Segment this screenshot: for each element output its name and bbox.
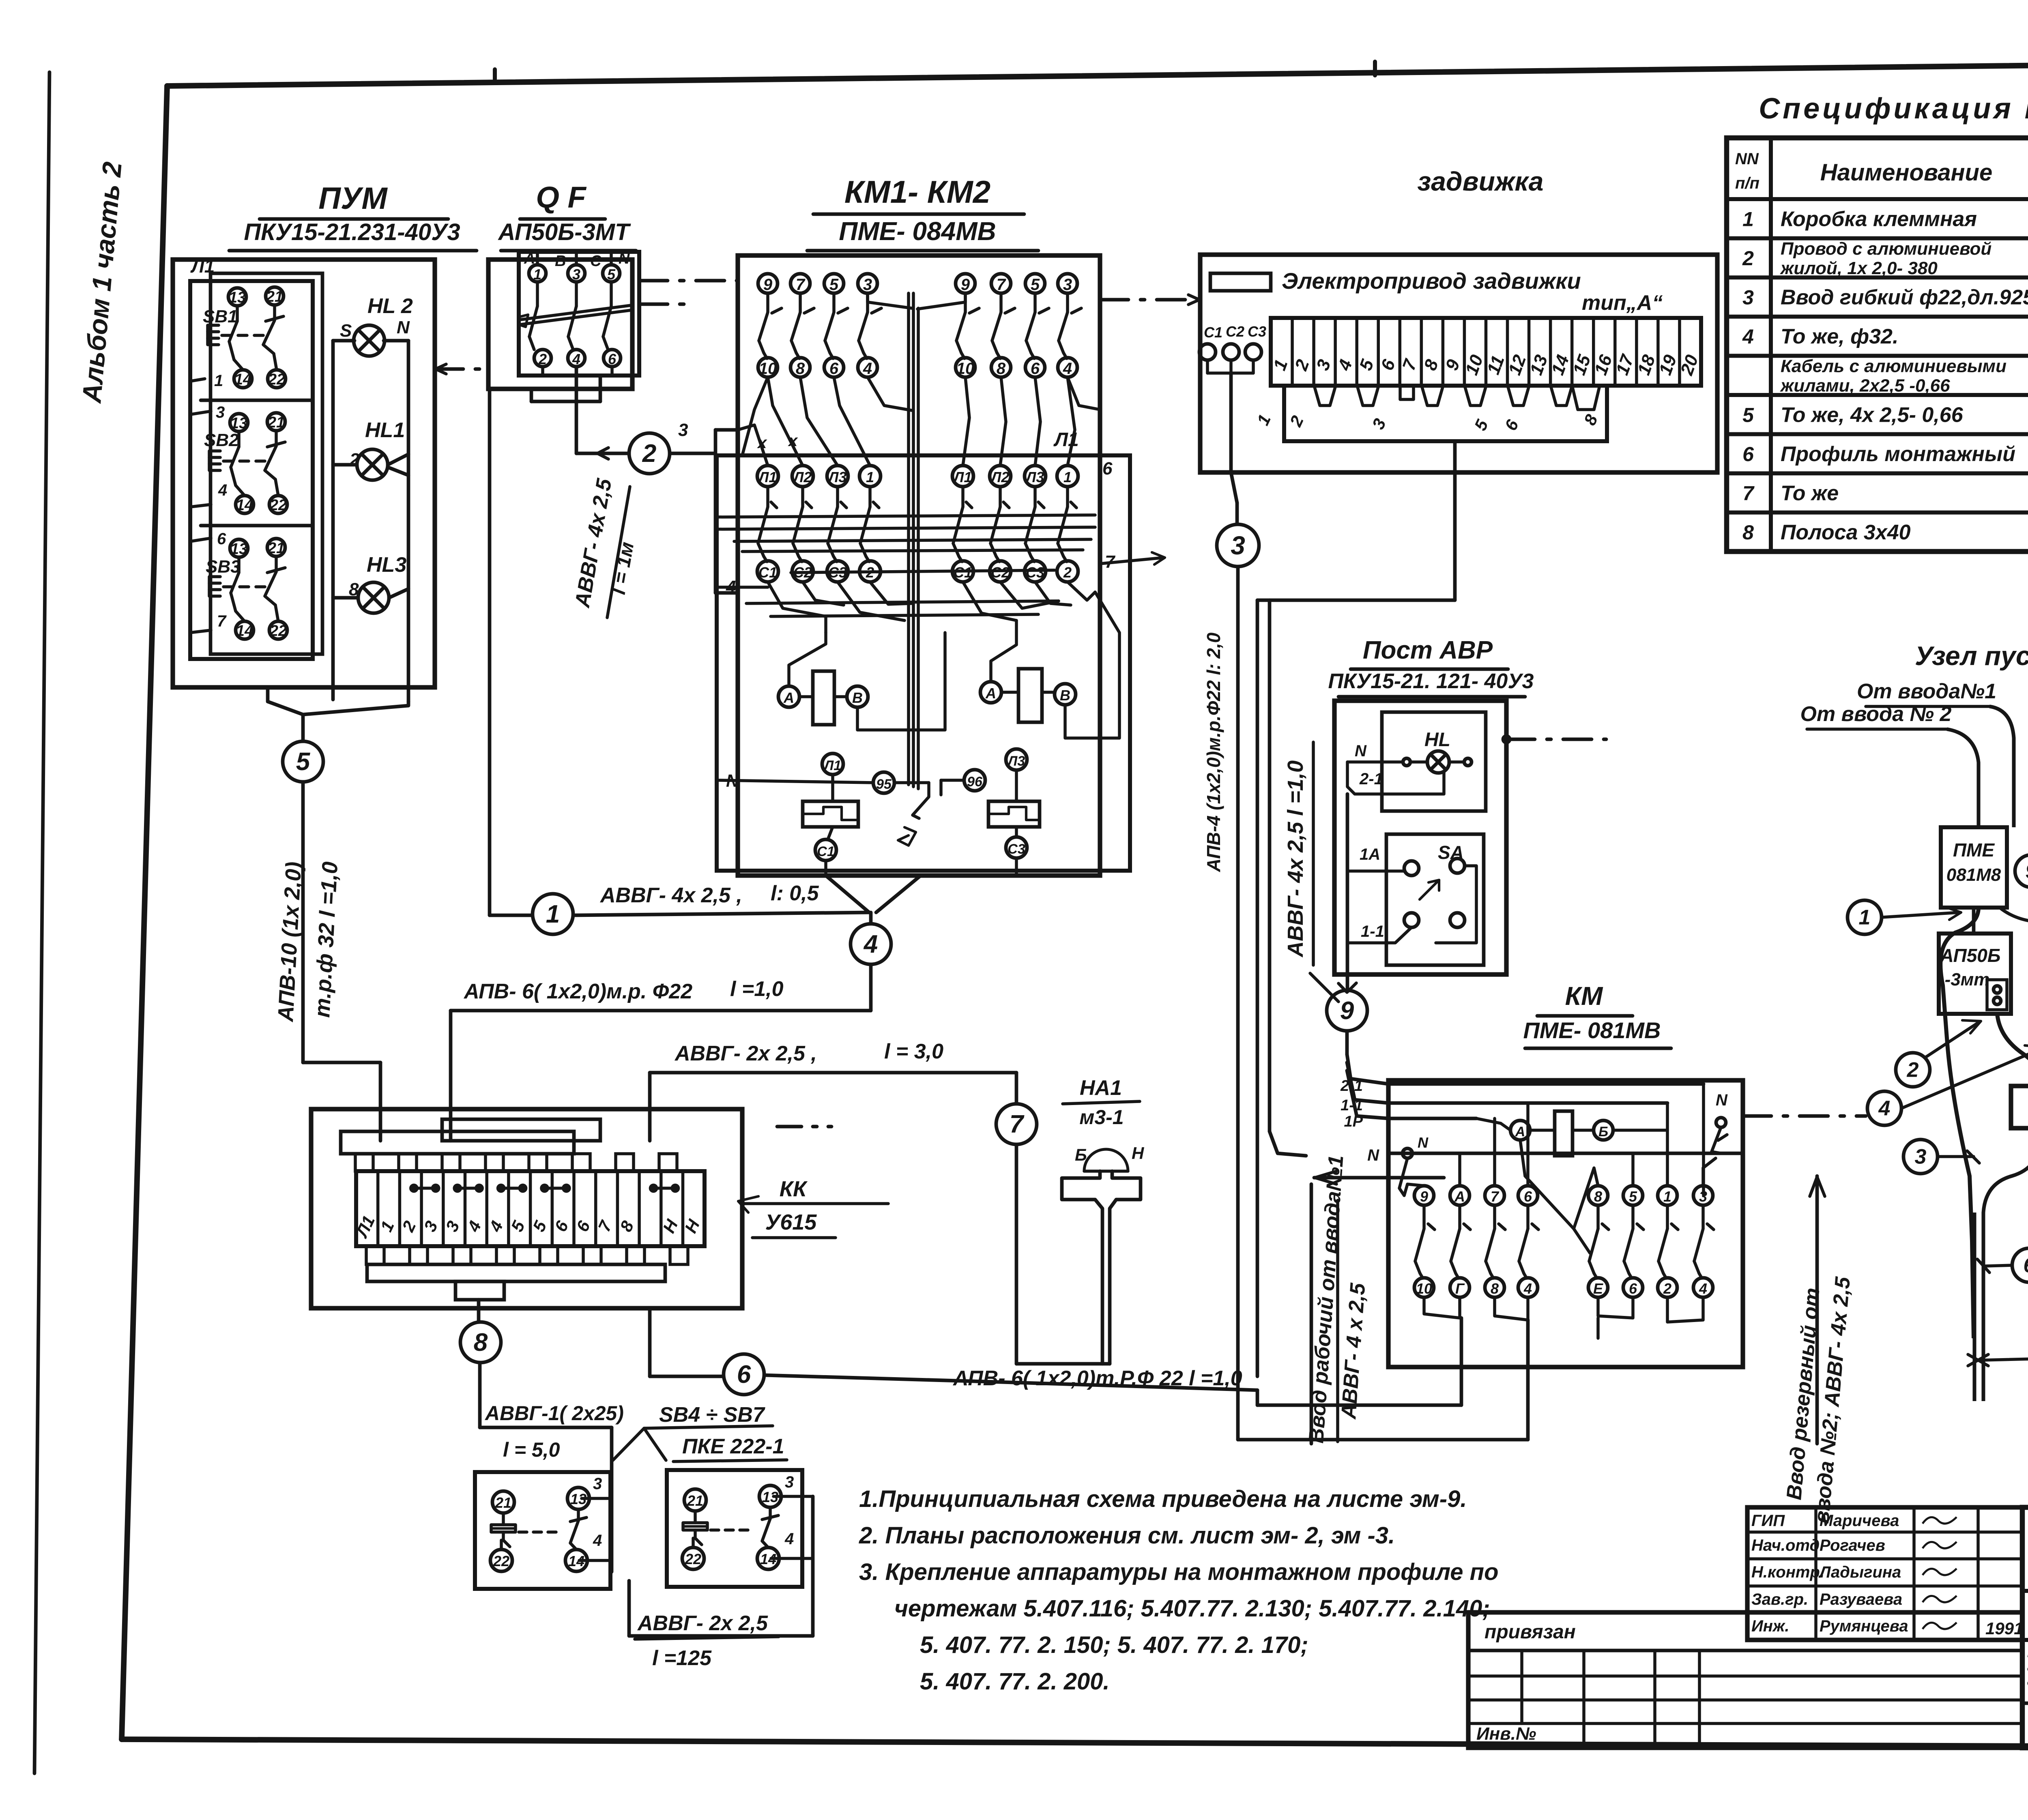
svg-text:АВВГ- 4х 2,5 l =1,0: АВВГ- 4х 2,5 l =1,0 xyxy=(1283,760,1308,958)
svg-text:3: 3 xyxy=(1699,1188,1707,1205)
svg-text:2: 2 xyxy=(1063,564,1072,581)
vertical album label xyxy=(76,161,127,405)
svg-text:С1: С1 xyxy=(758,564,777,581)
svg-text:6: 6 xyxy=(829,360,839,378)
svg-text:тип„А“: тип„А“ xyxy=(1582,291,1663,315)
svg-text:Л2: Л2 xyxy=(990,469,1010,485)
breaker QF title xyxy=(497,180,636,251)
svg-text:HL 2: HL 2 xyxy=(367,294,413,318)
svg-text:АВВГ-1( 2х25): АВВГ-1( 2х25) xyxy=(484,1402,624,1425)
svg-text:п/п: п/п xyxy=(1735,174,1759,192)
wire marker 1 xyxy=(533,894,573,934)
svg-text:4: 4 xyxy=(863,360,872,378)
wire QF left down to marker 1 xyxy=(490,389,533,915)
svg-text:3: 3 xyxy=(785,1473,794,1491)
svg-text:1Р: 1Р xyxy=(1344,1113,1363,1130)
post AVR outline xyxy=(1334,701,1506,974)
label k zadvizhke xyxy=(1968,1328,2028,1387)
svg-text:1-1: 1-1 xyxy=(1341,1097,1363,1114)
svg-text:В: В xyxy=(1060,687,1070,704)
cable label APV-4 rotated xyxy=(1203,632,1224,872)
svg-text:Пост АВР: Пост АВР xyxy=(1363,636,1493,664)
wire SB loop xyxy=(629,1496,813,1636)
KM1 main contacts xyxy=(757,432,881,582)
title block left grid xyxy=(1468,1612,2022,1748)
svg-text:1: 1 xyxy=(1663,1188,1671,1205)
KM bottom links xyxy=(1238,1297,1703,1440)
svg-text:ПКЕ 222-1: ПКЕ 222-1 xyxy=(682,1435,784,1458)
svg-text:АВВГ- 2х 2,5: АВВГ- 2х 2,5 xyxy=(637,1612,768,1635)
svg-text:8: 8 xyxy=(1594,1188,1602,1205)
svg-text:1: 1 xyxy=(1859,906,1871,929)
contactor KM1-KM2 outline xyxy=(738,255,1100,876)
box PME-081M8 xyxy=(1941,827,2007,908)
KM2 aux contacts xyxy=(956,274,1081,378)
svg-text:6: 6 xyxy=(217,530,226,548)
svg-text:ГИП: ГИП xyxy=(1751,1512,1785,1530)
callout 4 xyxy=(1867,1045,2028,1125)
svg-text:14: 14 xyxy=(234,371,251,388)
valve block title xyxy=(1418,166,1544,196)
wire C2 down to marker 3 xyxy=(1231,472,1237,524)
box AP50B-3MT xyxy=(1939,908,2011,1014)
svg-text:ПКУ15-21.231-40У3: ПКУ15-21.231-40У3 xyxy=(244,219,460,245)
svg-text:3: 3 xyxy=(1742,286,1754,309)
svg-text:С: С xyxy=(590,253,602,270)
post AVR switch SA xyxy=(1347,834,1484,965)
callout 3 xyxy=(1903,1140,1979,1174)
cable label AVVG-2x2.5 bottom xyxy=(635,1612,779,1670)
valve terminal strip 1-20 xyxy=(1270,318,1702,386)
label SB4-SB7 xyxy=(613,1403,787,1462)
svg-text:3: 3 xyxy=(1915,1145,1927,1169)
svg-text:1: 1 xyxy=(533,266,541,283)
svg-text:4: 4 xyxy=(593,1532,602,1550)
KM wire weave horizontal xyxy=(717,377,1100,633)
svg-text:6: 6 xyxy=(1742,443,1754,466)
svg-text:14: 14 xyxy=(236,622,253,640)
svg-text:3: 3 xyxy=(1063,276,1072,294)
block PUM outline xyxy=(173,260,435,687)
assembly sketch title xyxy=(1915,641,2028,671)
pushbutton box SB6-SB7 xyxy=(667,1470,813,1587)
svg-text:2: 2 xyxy=(1663,1280,1671,1297)
svg-text:С1: С1 xyxy=(1204,324,1222,341)
title block main box xyxy=(2022,1507,2028,1748)
svg-text:9: 9 xyxy=(1420,1188,1428,1205)
wire AVVG-2x2.5 l=3.0 xyxy=(650,1040,1016,1141)
svg-text:2-1: 2-1 xyxy=(1359,770,1383,788)
wire marker 4 xyxy=(851,924,891,964)
svg-text:SB4 ÷ SB7: SB4 ÷ SB7 xyxy=(659,1403,765,1427)
svg-text:АПВ- 6( 1х2,0)м.р. Ф22: АПВ- 6( 1х2,0)м.р. Ф22 xyxy=(463,980,692,1003)
svg-text:HL3: HL3 xyxy=(367,553,406,577)
svg-text:А: А xyxy=(985,685,996,702)
svg-text:ПМЕ- 081МВ: ПМЕ- 081МВ xyxy=(1523,1017,1661,1043)
valve lower links box xyxy=(1253,386,1607,441)
KK label xyxy=(738,1177,888,1238)
pushbutton box SB4-SB5 xyxy=(475,1472,612,1589)
dash-dot link PUM to QF xyxy=(435,364,490,374)
svg-text:HL: HL xyxy=(1424,729,1450,751)
svg-text:3: 3 xyxy=(678,420,688,440)
svg-text:Полоса 3х40: Полоса 3х40 xyxy=(1781,521,1911,544)
KM coil xyxy=(1476,1111,1667,1253)
svg-text:22: 22 xyxy=(493,1553,509,1569)
coil KM1 xyxy=(778,633,945,730)
KM1 aux contacts xyxy=(758,274,881,378)
svg-text:А: А xyxy=(1454,1188,1465,1205)
svg-text:жилой, 1х 2,0- 380: жилой, 1х 2,0- 380 xyxy=(1780,258,1938,278)
wire marker5 down to KK xyxy=(303,782,380,1141)
svg-text:То же: То же xyxy=(1781,482,1839,505)
KM1-KM2 bottom funnel to marker 4 xyxy=(826,876,921,924)
svg-text:Нач.отд: Нач.отд xyxy=(1751,1537,1820,1554)
KM1-KM2 inner box L1 xyxy=(717,429,1165,871)
KM wire rows xyxy=(1388,1084,1743,1195)
svg-text:Л3: Л3 xyxy=(1025,469,1044,485)
svg-text:N: N xyxy=(1418,1134,1429,1151)
svg-text:То же, 4х 2,5- 0,66: То же, 4х 2,5- 0,66 xyxy=(1781,403,1964,427)
wire marker 5 xyxy=(283,741,323,782)
feed cables curves xyxy=(1947,706,2014,827)
svg-text:ПМЕ: ПМЕ xyxy=(1953,839,1995,861)
svg-text:Коробка клеммная: Коробка клеммная xyxy=(1781,207,1977,231)
svg-text:96: 96 xyxy=(967,774,983,790)
contactor KM title xyxy=(1523,981,1671,1048)
siren HA1 xyxy=(1062,1076,1145,1364)
svg-text:Узел пусковой аппаратуры: Узел пусковой аппаратуры xyxy=(1915,641,2028,671)
svg-text:Провод с алюминиевой: Провод с алюминиевой xyxy=(1781,239,1991,259)
svg-text:ПКУ15-21. 121- 40У3: ПКУ15-21. 121- 40У3 xyxy=(1328,670,1534,693)
svg-text:Наименование: Наименование xyxy=(1820,159,1992,186)
svg-text:В: В xyxy=(555,253,566,270)
svg-text:9: 9 xyxy=(961,276,970,294)
svg-text:Рогачев: Рогачев xyxy=(1820,1537,1885,1554)
wire marker2 to KM1 node 3 xyxy=(670,420,738,597)
svg-text:5. 407. 77. 2. 150; 5. 407. 7: 5. 407. 77. 2. 150; 5. 407. 77. 2. 170; xyxy=(920,1632,1308,1658)
svg-text:жилами, 2х2,5 -0,66: жилами, 2х2,5 -0,66 xyxy=(1780,376,1950,396)
svg-text:КМ: КМ xyxy=(1565,981,1603,1011)
svg-text:чертежам 5.407.116; 5.407: чертежам 5.407.116; 5.407.77. 2.130; 5.4… xyxy=(894,1595,1490,1622)
svg-text:Л1: Л1 xyxy=(758,469,777,485)
svg-text:От ввода № 2: От ввода № 2 xyxy=(1800,702,1952,726)
svg-text:2: 2 xyxy=(1742,247,1754,270)
svg-text:Ввод гибкий ф22,дл.925: Ввод гибкий ф22,дл.925 xyxy=(1781,286,2028,309)
svg-text:АВВГ- 2х 2,5 ,: АВВГ- 2х 2,5 , xyxy=(674,1042,817,1065)
svg-text:А: А xyxy=(1515,1124,1525,1140)
svg-text:N: N xyxy=(1355,742,1367,760)
svg-text:Л2: Л2 xyxy=(793,469,812,485)
svg-text:Зав.гр.: Зав.гр. xyxy=(1751,1590,1808,1608)
svg-text:l = 3,0: l = 3,0 xyxy=(884,1040,943,1063)
svg-text:6: 6 xyxy=(1031,360,1040,378)
contactor KM outline xyxy=(1388,1080,1743,1367)
svg-text:То же, ф32.: То же, ф32. xyxy=(1781,325,1898,348)
svg-text:АП50Б-3МТ: АП50Б-3МТ xyxy=(497,219,631,245)
KM center bus xyxy=(868,293,965,789)
svg-text:7: 7 xyxy=(217,612,227,630)
post AVR title xyxy=(1328,636,1534,697)
dash-dot link QF to KM1 xyxy=(639,281,738,304)
svg-text:N: N xyxy=(1367,1146,1379,1164)
spec table rows text xyxy=(1742,207,2028,544)
svg-text:7: 7 xyxy=(997,276,1006,294)
svg-text:7: 7 xyxy=(1742,482,1755,505)
svg-text:2: 2 xyxy=(538,351,547,367)
svg-text:7: 7 xyxy=(1491,1188,1500,1205)
svg-text:l =125: l =125 xyxy=(652,1646,712,1670)
svg-text:3: 3 xyxy=(593,1475,602,1493)
svg-text:9: 9 xyxy=(763,276,773,294)
lamp HL3 xyxy=(333,553,408,613)
svg-text:l: 0,5: l: 0,5 xyxy=(771,882,819,905)
assembly cables xyxy=(1940,908,2028,1401)
svg-text:С2: С2 xyxy=(1226,323,1244,340)
svg-text:9: 9 xyxy=(2026,860,2028,883)
svg-text:13: 13 xyxy=(230,541,247,558)
svg-text:1А: 1А xyxy=(1360,846,1380,863)
breaker QF poles xyxy=(518,250,631,401)
PUM bottom funnel wire xyxy=(268,687,408,741)
wire marker 3 xyxy=(1217,524,1259,567)
svg-text:1: 1 xyxy=(1742,208,1754,230)
KK lower stubs xyxy=(366,1246,688,1300)
svg-text:7: 7 xyxy=(1010,1110,1025,1138)
svg-text:КМ1- КМ2: КМ1- КМ2 xyxy=(844,174,990,210)
title block object name xyxy=(2022,1643,2028,1704)
svg-text:10: 10 xyxy=(1416,1280,1432,1297)
svg-text:Н.контр.: Н.контр. xyxy=(1751,1563,1824,1581)
wire marker 6 xyxy=(650,1308,1257,1395)
svg-text:С3: С3 xyxy=(1026,564,1044,581)
wire QF down to marker 2 xyxy=(576,367,629,459)
svg-text:А: А xyxy=(783,689,794,706)
valve wire down to KM xyxy=(1257,441,1455,600)
wire marker4 to APV-6 run xyxy=(451,964,871,1141)
svg-text:Q F: Q F xyxy=(536,180,586,214)
wire marker 9 xyxy=(1327,983,1367,1031)
svg-text:22: 22 xyxy=(269,497,287,514)
svg-text:4: 4 xyxy=(1063,360,1072,378)
spec table grid xyxy=(1727,138,2028,552)
terminal box KK outline xyxy=(311,1109,742,1308)
svg-text:SB1: SB1 xyxy=(203,307,238,326)
svg-text:НА1: НА1 xyxy=(1080,1076,1122,1100)
svg-text:Электропривод задвижки: Электропривод задвижки xyxy=(1282,268,1581,294)
svg-text:21: 21 xyxy=(687,1492,703,1509)
valve terminals C1 C2 C3 xyxy=(1199,323,1266,472)
svg-text:4: 4 xyxy=(863,930,878,958)
box U615 xyxy=(2011,1076,2028,1138)
svg-text:АПВ- 6( 1х2,0)т.Р.Ф 22 l =1,: АПВ- 6( 1х2,0)т.Р.Ф 22 l =1,0 xyxy=(952,1367,1242,1390)
svg-text:3: 3 xyxy=(863,276,872,294)
cable label AVVG-1 xyxy=(484,1402,624,1461)
svg-text:2: 2 xyxy=(642,440,656,468)
KK terminal strip xyxy=(352,1171,705,1246)
notes text xyxy=(859,1486,1499,1695)
svg-text:Л3: Л3 xyxy=(827,469,847,485)
wire marker 2 xyxy=(629,433,670,474)
svg-text:6: 6 xyxy=(1629,1280,1637,1297)
svg-text:8: 8 xyxy=(796,360,805,378)
svg-text:14: 14 xyxy=(236,497,253,514)
cable label AVVG-4x2.5 l=1.0 rotated xyxy=(1283,742,1338,1002)
svg-text:В: В xyxy=(852,689,863,706)
KM row labels xyxy=(1340,1077,1379,1164)
wire marker 7 xyxy=(777,1073,1110,1364)
svg-text:Инв.№: Инв.№ xyxy=(1476,1724,1536,1744)
KK upper stubs xyxy=(341,1119,677,1171)
box PME-084M3 xyxy=(2000,908,2028,1014)
dash-dot link KM1 to valve xyxy=(1100,295,1200,305)
svg-text:привязан: привязан xyxy=(1484,1621,1576,1643)
svg-text:SB2: SB2 xyxy=(204,430,239,450)
svg-text:1: 1 xyxy=(214,372,223,390)
KM contacts top row xyxy=(1414,1186,1714,1297)
svg-text:SB3: SB3 xyxy=(206,557,241,577)
valve drive symbol xyxy=(1210,268,1663,315)
svg-text:Г: Г xyxy=(1455,1280,1465,1297)
svg-text:Б: Б xyxy=(1598,1124,1608,1140)
svg-text:Румянцева: Румянцева xyxy=(1820,1617,1908,1635)
wire marker 3 down corridor xyxy=(1238,567,1306,1440)
svg-text:8: 8 xyxy=(1491,1280,1499,1297)
svg-text:АВВГ- 4х 2,5 ,: АВВГ- 4х 2,5 , xyxy=(599,884,742,907)
svg-text:2: 2 xyxy=(1907,1058,1919,1082)
svg-text:5: 5 xyxy=(1629,1188,1637,1205)
KM contact feeders xyxy=(1404,1103,1716,1229)
svg-text:21: 21 xyxy=(266,288,283,305)
svg-text:22: 22 xyxy=(269,622,287,640)
coil KM2 xyxy=(980,592,1119,738)
block PUM title xyxy=(229,181,477,251)
svg-text:4: 4 xyxy=(1523,1280,1532,1297)
svg-text:8: 8 xyxy=(997,360,1006,378)
KM2 main contacts xyxy=(952,466,1078,582)
svg-text:АП50Б: АП50Б xyxy=(1940,945,2001,966)
svg-text:21: 21 xyxy=(495,1494,511,1511)
contactor KM1-KM2 title xyxy=(807,174,1038,251)
dash-dot link KM right xyxy=(1743,1114,1866,1118)
svg-text:Маричева: Маричева xyxy=(1820,1512,1899,1530)
svg-text:13: 13 xyxy=(229,289,246,306)
svg-text:l = 5,0: l = 5,0 xyxy=(503,1438,560,1461)
svg-text:NN: NN xyxy=(1735,150,1759,168)
svg-text:5. 407. 77. 2. 200.: 5. 407. 77. 2. 200. xyxy=(920,1668,1110,1695)
lamp HL2 xyxy=(333,294,413,356)
svg-text:4: 4 xyxy=(1742,325,1754,348)
svg-text:6: 6 xyxy=(2024,1254,2028,1277)
PUM inner switch box xyxy=(190,255,322,659)
svg-text:HL1: HL1 xyxy=(365,419,405,442)
svg-text:Инж.: Инж. xyxy=(1751,1617,1790,1635)
svg-text:5: 5 xyxy=(1031,276,1040,294)
svg-text:Н: Н xyxy=(1132,1144,1145,1163)
svg-text:9: 9 xyxy=(1340,997,1354,1025)
svg-text:8: 8 xyxy=(1742,521,1754,544)
svg-text:Л3: Л3 xyxy=(1007,753,1025,769)
svg-text:N: N xyxy=(619,250,630,267)
svg-text:7: 7 xyxy=(796,276,806,294)
svg-text:N: N xyxy=(1716,1091,1728,1109)
svg-text:13: 13 xyxy=(230,415,247,432)
valve block outline xyxy=(1200,255,1717,472)
svg-text:Л1: Л1 xyxy=(190,255,215,277)
wire marker 9 to KM rows xyxy=(1347,1031,1388,1118)
svg-text:Е: Е xyxy=(1593,1280,1603,1297)
feed labels ot vvoda xyxy=(1800,680,1996,729)
svg-text:м3-1: м3-1 xyxy=(1079,1106,1124,1129)
svg-text:21: 21 xyxy=(267,540,285,557)
svg-text:2-1: 2-1 xyxy=(1340,1077,1363,1095)
svg-text:1-1: 1-1 xyxy=(1361,923,1384,940)
svg-text:Л1: Л1 xyxy=(953,469,972,485)
svg-text:22: 22 xyxy=(268,371,285,388)
lamp rails xyxy=(333,341,408,702)
svg-text:6: 6 xyxy=(1102,459,1113,479)
svg-text:С2: С2 xyxy=(991,564,1010,581)
svg-text:С3: С3 xyxy=(1248,323,1266,340)
svg-text:Л1: Л1 xyxy=(823,758,841,773)
svg-text:АПВ-4 (1х2,0)м.р.Ф22 l: 2,0: АПВ-4 (1х2,0)м.р.Ф22 l: 2,0 xyxy=(1203,632,1224,872)
svg-text:ПМЕ- 084МВ: ПМЕ- 084МВ xyxy=(839,217,996,246)
svg-text:1.Принципиальная схема приве: 1.Принципиальная схема приведена на лист… xyxy=(859,1486,1467,1512)
svg-text:22: 22 xyxy=(685,1551,701,1567)
svg-text:3: 3 xyxy=(216,403,225,421)
svg-text:От ввода№1: От ввода№1 xyxy=(1857,680,1996,703)
svg-text:5: 5 xyxy=(829,276,839,294)
lamp HL1 xyxy=(333,419,408,480)
KM N contacts xyxy=(1399,1091,1728,1195)
svg-text:1: 1 xyxy=(866,469,874,485)
svg-text:У615: У615 xyxy=(765,1210,817,1234)
svg-text:10: 10 xyxy=(956,360,975,378)
callout 6 xyxy=(1977,1248,2028,1282)
svg-text:5: 5 xyxy=(607,266,616,283)
svg-text:6: 6 xyxy=(737,1361,751,1389)
svg-text:С3: С3 xyxy=(1008,841,1025,857)
svg-text:КК: КК xyxy=(780,1177,808,1201)
callout 2 xyxy=(1896,1020,1981,1087)
svg-text:1: 1 xyxy=(1063,469,1072,485)
svg-text:21: 21 xyxy=(267,414,285,431)
svg-text:3: 3 xyxy=(1231,531,1245,560)
svg-text:10: 10 xyxy=(759,360,777,378)
svg-text:Спецификация на монтажные м: Спецификация на монтажные материалы xyxy=(1759,92,2028,125)
title block signature table xyxy=(1747,1507,2023,1640)
svg-text:Ладыгина: Ладыгина xyxy=(1818,1563,1901,1581)
svg-text:6: 6 xyxy=(608,351,617,367)
svg-text:5: 5 xyxy=(296,748,311,776)
annotation vvod rezervny xyxy=(1782,1176,1855,1524)
svg-text:4: 4 xyxy=(784,1530,794,1548)
dash-dot link AVR right xyxy=(1503,736,1606,743)
svg-text:3. Крепление аппаратуры на: 3. Крепление аппаратуры на монтажном про… xyxy=(859,1559,1499,1585)
wire marker 8 xyxy=(460,1300,612,1572)
cable label APV-10 rotated xyxy=(273,861,342,1023)
switch SB1 xyxy=(190,287,286,390)
svg-text:3: 3 xyxy=(572,266,580,283)
svg-text:081М8: 081М8 xyxy=(1946,865,2001,885)
spec table heading xyxy=(1759,92,2028,125)
switch SB2 xyxy=(190,403,287,514)
svg-text:95: 95 xyxy=(876,777,892,792)
cable label AVVG-4x2.5 l=1m rotated xyxy=(570,476,638,618)
svg-text:Профиль монтажный: Профиль монтажный xyxy=(1781,442,2015,466)
svg-text:4: 4 xyxy=(1878,1097,1891,1120)
svg-text:N: N xyxy=(397,318,410,337)
